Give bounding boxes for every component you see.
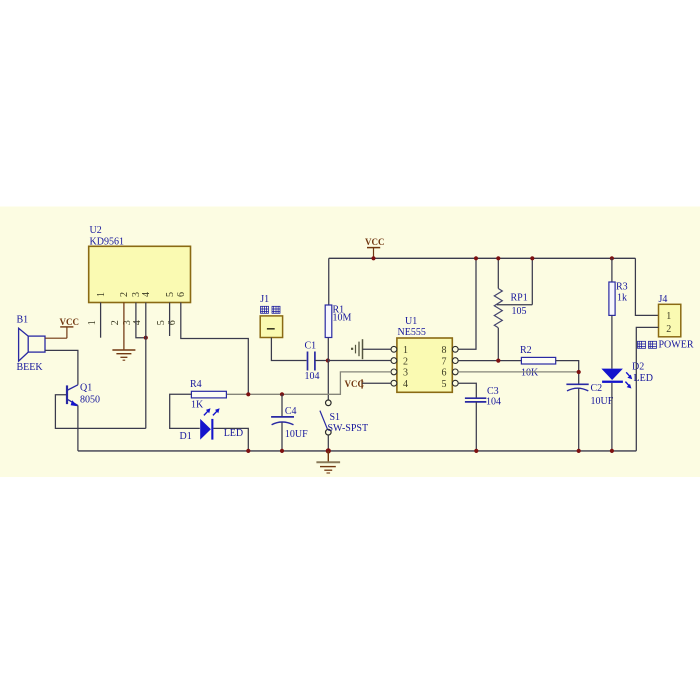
label 10UF (C2)	[591, 396, 614, 407]
svg-text:R3: R3	[616, 282, 628, 293]
wire J1 to C1	[271, 338, 306, 361]
wire VCC to U1 pin 4	[362, 382, 391, 384]
U1 pin number 7	[442, 356, 447, 367]
wire rail to R3	[611, 258, 613, 282]
label J1	[260, 294, 269, 305]
resistor R3 1k	[609, 282, 615, 315]
resistor R1 10M	[325, 305, 332, 338]
U2 pin number 4 (below)	[132, 320, 143, 325]
svg-text:C1: C1	[305, 341, 317, 352]
label RP1	[511, 293, 528, 304]
node C1/R1/pin2 junction	[326, 358, 330, 362]
label SW-SPST	[328, 423, 369, 434]
resistor R4 1K	[191, 391, 226, 398]
svg-text:10M: 10M	[333, 312, 352, 323]
potentiometer RP1 105	[494, 258, 532, 361]
node D1 net on bottom rail	[246, 449, 250, 453]
wire C1 to node	[315, 360, 328, 362]
svg-text:6: 6	[167, 320, 178, 325]
svg-text:D2: D2	[632, 362, 644, 373]
svg-text:J4: J4	[659, 294, 668, 305]
label B1	[17, 315, 29, 326]
svg-text:KD9561: KD9561	[90, 237, 124, 248]
J4 pin number 1	[666, 311, 671, 322]
svg-text:VCC: VCC	[365, 237, 385, 247]
wire C2 to bottom rail	[578, 388, 580, 451]
connector J4	[659, 304, 681, 337]
node C3 bottom	[474, 449, 478, 453]
svg-text:1: 1	[96, 292, 107, 297]
node pin6-net on pin3 wire	[246, 392, 250, 396]
node RP1 top	[496, 256, 500, 260]
svg-text:2: 2	[666, 324, 671, 335]
node VCC tap	[371, 256, 375, 260]
svg-text:2: 2	[403, 356, 408, 367]
svg-text:D1: D1	[180, 431, 192, 442]
node R3 top	[610, 256, 614, 260]
svg-text:C2: C2	[591, 383, 603, 394]
LED D2	[601, 369, 632, 389]
wire ground to U1 pin 1	[363, 348, 391, 350]
node C4 top	[280, 392, 284, 396]
label 1k	[617, 293, 627, 304]
node pin6/C2 junction	[577, 370, 581, 374]
svg-text:8050: 8050	[80, 394, 100, 405]
svg-text:VCC: VCC	[60, 317, 80, 327]
power VCC (U1 pin 4)	[345, 379, 365, 389]
node D2 bottom	[610, 449, 614, 453]
label BEEK	[17, 362, 44, 373]
svg-text:1K: 1K	[191, 400, 204, 411]
U1 pin 3 circle	[391, 369, 397, 375]
label J4	[659, 294, 668, 305]
U2 pin number 6 (inside)	[176, 292, 187, 297]
U2 pin number 2 (below)	[110, 320, 121, 325]
svg-text:3: 3	[403, 368, 408, 379]
ground symbol (U2 pin 2)	[112, 350, 135, 360]
wire S1 to bottom rail	[327, 435, 329, 451]
svg-text:104: 104	[305, 371, 320, 382]
U2 pin number 1 (inside)	[96, 292, 107, 297]
wire U1 pin 7 to R2	[458, 360, 521, 362]
node S1/ground on bottom rail	[326, 448, 331, 453]
U2 pin number 2 (inside)	[119, 292, 130, 297]
IC U1 NE555 body	[397, 338, 452, 392]
label LED (D1)	[224, 428, 243, 439]
ground symbol (U1 pin 1)	[351, 339, 363, 359]
label U1	[405, 316, 417, 327]
svg-text:C4: C4	[285, 406, 297, 417]
capacitor C3 104	[465, 398, 486, 402]
U1 pin number 8	[442, 345, 447, 356]
wire C4 to bottom rail	[281, 422, 283, 451]
label 104 (C3)	[486, 397, 501, 408]
wire Q1 emitter to bottom rail	[77, 405, 79, 451]
wire node to U1 pin 2	[328, 360, 391, 362]
wire speaker top to VCC	[45, 337, 67, 339]
svg-text:U2: U2	[90, 225, 102, 236]
label 105	[512, 306, 527, 317]
U2 pin number 3 (below)	[122, 320, 133, 325]
wire C3 to bottom rail	[475, 402, 477, 451]
U1 pin 1 circle	[391, 346, 397, 352]
wire R1 to C1 node to S1	[327, 338, 329, 400]
svg-text:10K: 10K	[521, 367, 539, 378]
svg-text:RP1: RP1	[511, 293, 528, 304]
U1 pin 7 circle	[452, 358, 458, 364]
svg-text:C3: C3	[487, 386, 499, 397]
J4 pin number 2	[666, 324, 671, 335]
node RP1 wiper top	[530, 256, 534, 260]
svg-text:104: 104	[486, 397, 501, 408]
label 10M	[333, 312, 352, 323]
label 8050	[80, 394, 100, 405]
switch S1 SW-SPST	[320, 400, 331, 435]
svg-text:4: 4	[132, 320, 143, 325]
label C2	[591, 383, 603, 394]
label S1	[330, 412, 341, 423]
svg-text:5: 5	[156, 320, 167, 325]
svg-text:R2: R2	[520, 345, 532, 356]
wire U2 pin 6 to node below	[181, 303, 249, 395]
U1 pin 2 circle	[391, 358, 397, 364]
svg-text:POWER: POWER	[659, 340, 694, 351]
node RP1 bottom on pin7 wire	[496, 359, 500, 363]
label R4	[190, 379, 202, 390]
U1 pin number 1	[403, 345, 408, 356]
wire Q1 base loop	[55, 395, 145, 429]
U1 pin number 2	[403, 356, 408, 367]
node C2 bottom	[577, 449, 581, 453]
label Q1	[80, 383, 92, 394]
wire U2 pin 2 to ground	[123, 303, 125, 350]
label C3	[487, 386, 499, 397]
wire R2 to C2 branch	[556, 361, 579, 385]
U1 pin 8 circle	[452, 346, 458, 352]
svg-text:BEEK: BEEK	[17, 362, 44, 373]
wire U2 pin 1 stub	[100, 303, 102, 338]
svg-text:4: 4	[141, 292, 152, 297]
label POWER (Chinese + POWER)	[638, 340, 694, 351]
power VCC (speaker)	[60, 317, 80, 338]
capacitor C2 10UF	[566, 384, 588, 391]
svg-text:Q1: Q1	[80, 383, 92, 394]
svg-text:S1: S1	[330, 412, 341, 423]
U2 pin number 1 (below)	[87, 320, 98, 325]
wire VCC rail	[329, 257, 636, 259]
capacitor C4 10UF	[271, 417, 294, 425]
wire D2 to bottom rail	[611, 383, 613, 451]
wire bottom ground rail	[78, 450, 636, 452]
node pin8 branch	[474, 256, 478, 260]
wire U2 pin 3	[136, 303, 146, 338]
label R3	[616, 282, 628, 293]
label NE555	[398, 327, 426, 338]
label 10UF (C4)	[285, 429, 308, 440]
label C4	[285, 406, 297, 417]
wire U1 pin 6 (gray net)	[458, 371, 579, 373]
svg-text:U1: U1	[405, 316, 417, 327]
wire R4 left loop to D1	[170, 394, 200, 428]
speaker B1	[19, 328, 45, 361]
svg-text:NE555: NE555	[398, 327, 426, 338]
wire speaker bottom to Q1 collector	[45, 350, 78, 384]
ground symbol (bottom rail)	[316, 451, 340, 473]
svg-text:LED: LED	[224, 428, 243, 439]
U1 pin 6 circle	[452, 369, 458, 375]
wire U2 pin 4 down to Q1 base net	[145, 303, 147, 429]
wire U1 pin 3 (gray net)	[227, 372, 391, 394]
capacitor C1 104	[308, 352, 315, 371]
svg-text:7: 7	[442, 356, 447, 367]
svg-text:6: 6	[442, 368, 447, 379]
label KD9561	[90, 237, 124, 248]
svg-text:1: 1	[666, 311, 671, 322]
wire J4 pin 2 to bottom rail	[636, 327, 658, 451]
wire rail to U1 pin 8	[458, 258, 476, 349]
IC U2 KD9561 body	[89, 246, 191, 302]
transistor Q1 8050	[67, 385, 78, 406]
label J1 Chinese (touch)	[261, 306, 281, 313]
svg-text:10UF: 10UF	[285, 429, 308, 440]
svg-text:5: 5	[165, 292, 176, 297]
label U2	[90, 225, 102, 236]
svg-text:SW-SPST: SW-SPST	[328, 423, 369, 434]
power VCC (rail)	[365, 237, 385, 258]
U1 pin 5 circle	[452, 380, 458, 386]
wire R3 to D2	[611, 315, 613, 368]
svg-text:6: 6	[176, 292, 187, 297]
U1 pin 4 circle	[391, 380, 397, 386]
svg-text:10UF: 10UF	[591, 396, 614, 407]
resistor R2 10K	[521, 357, 555, 364]
svg-text:4: 4	[403, 379, 408, 390]
svg-text:J1: J1	[260, 294, 269, 305]
svg-text:2: 2	[110, 320, 121, 325]
svg-text:105: 105	[512, 306, 527, 317]
connector J1	[260, 316, 282, 338]
label 1K	[191, 400, 204, 411]
svg-text:2: 2	[119, 292, 130, 297]
label D2	[632, 362, 644, 373]
label 10K	[521, 367, 539, 378]
U1 pin number 4	[403, 379, 408, 390]
label C1	[305, 341, 317, 352]
U2 pin number 5 (below)	[156, 320, 167, 325]
U1 pin number 6	[442, 368, 447, 379]
label 104 (C1)	[305, 371, 320, 382]
label LED (D2)	[634, 373, 653, 384]
wire U2 pin 5 stub	[169, 303, 171, 337]
wire VCC rail corner down to R1	[328, 258, 330, 305]
svg-text:R4: R4	[190, 379, 202, 390]
LED D1	[200, 408, 219, 439]
U1 pin number 5	[442, 379, 447, 390]
label R2	[520, 345, 532, 356]
U2 pin number 6 (below)	[167, 320, 178, 325]
svg-text:5: 5	[442, 379, 447, 390]
svg-text:1k: 1k	[617, 293, 627, 304]
node U2 pin3/pin4 junction	[144, 336, 148, 340]
label R1	[333, 305, 345, 316]
svg-text:VCC: VCC	[345, 379, 365, 389]
svg-text:1: 1	[403, 345, 408, 356]
svg-text:B1: B1	[17, 315, 29, 326]
svg-text:1: 1	[87, 320, 98, 325]
node C4 bottom	[280, 449, 284, 453]
svg-text:8: 8	[442, 345, 447, 356]
wire U1 pin 5 to C3	[458, 383, 476, 398]
wire node to C4	[281, 394, 283, 417]
U2 pin number 4 (inside)	[141, 292, 152, 297]
U1 pin number 3	[403, 368, 408, 379]
U2 pin number 5 (inside)	[165, 292, 176, 297]
wire D1 cathode to bottom rail	[213, 428, 248, 451]
label D1	[180, 431, 192, 442]
U2 pin number 3 (inside)	[131, 292, 142, 297]
wire rail to J4 pin 1	[635, 258, 658, 315]
